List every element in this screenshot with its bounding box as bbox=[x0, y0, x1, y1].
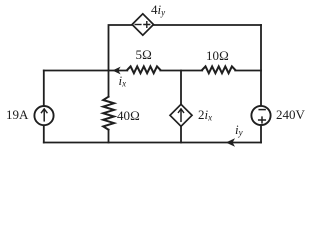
wire right rail upper bbox=[260, 25, 262, 105]
arrow iy (current arrow on bottom rail, pointing left) bbox=[226, 138, 235, 147]
resistor R1 5 ohm (horizontal zigzag) bbox=[127, 66, 160, 73]
wire middle rail centre segment bbox=[160, 70, 202, 72]
wire 40 ohm branch top lead bbox=[108, 71, 110, 97]
label 40 ohm bbox=[117, 109, 140, 122]
label iy bbox=[235, 123, 243, 136]
label 10 ohm bbox=[206, 49, 229, 62]
label ix bbox=[119, 74, 127, 87]
arrow ix (current arrow on middle rail, pointing left) bbox=[112, 67, 120, 75]
voltage source V1 240V bbox=[251, 106, 270, 125]
wire top rail left segment bbox=[109, 25, 133, 71]
resistor R2 10 ohm (horizontal zigzag) bbox=[202, 66, 235, 73]
resistor R3 40 ohm (vertical zigzag) bbox=[103, 97, 114, 130]
wire 40 ohm branch bottom lead bbox=[108, 130, 110, 143]
wire left rail upper bbox=[43, 71, 45, 106]
label 4iy bbox=[151, 3, 165, 16]
label 5 ohm bbox=[136, 48, 153, 61]
wire top rail right segment bbox=[154, 24, 262, 26]
wire bottom rail bbox=[44, 142, 261, 144]
wire 2ix branch bottom lead bbox=[180, 126, 182, 142]
wire middle rail right segment bbox=[235, 70, 261, 72]
label 2ix bbox=[198, 108, 212, 121]
current source I1 19A bbox=[34, 106, 53, 125]
dependent current source U2 2ix (diamond with up arrow) bbox=[170, 104, 192, 126]
label 240V bbox=[276, 108, 305, 121]
dependent voltage source U1 4iy (diamond) bbox=[132, 14, 153, 35]
wire middle rail left segment bbox=[44, 70, 128, 72]
wire left rail lower bbox=[43, 126, 45, 143]
wire 2ix branch top lead bbox=[180, 71, 182, 105]
label 19A bbox=[6, 108, 28, 121]
wire right rail lower bbox=[260, 125, 262, 142]
